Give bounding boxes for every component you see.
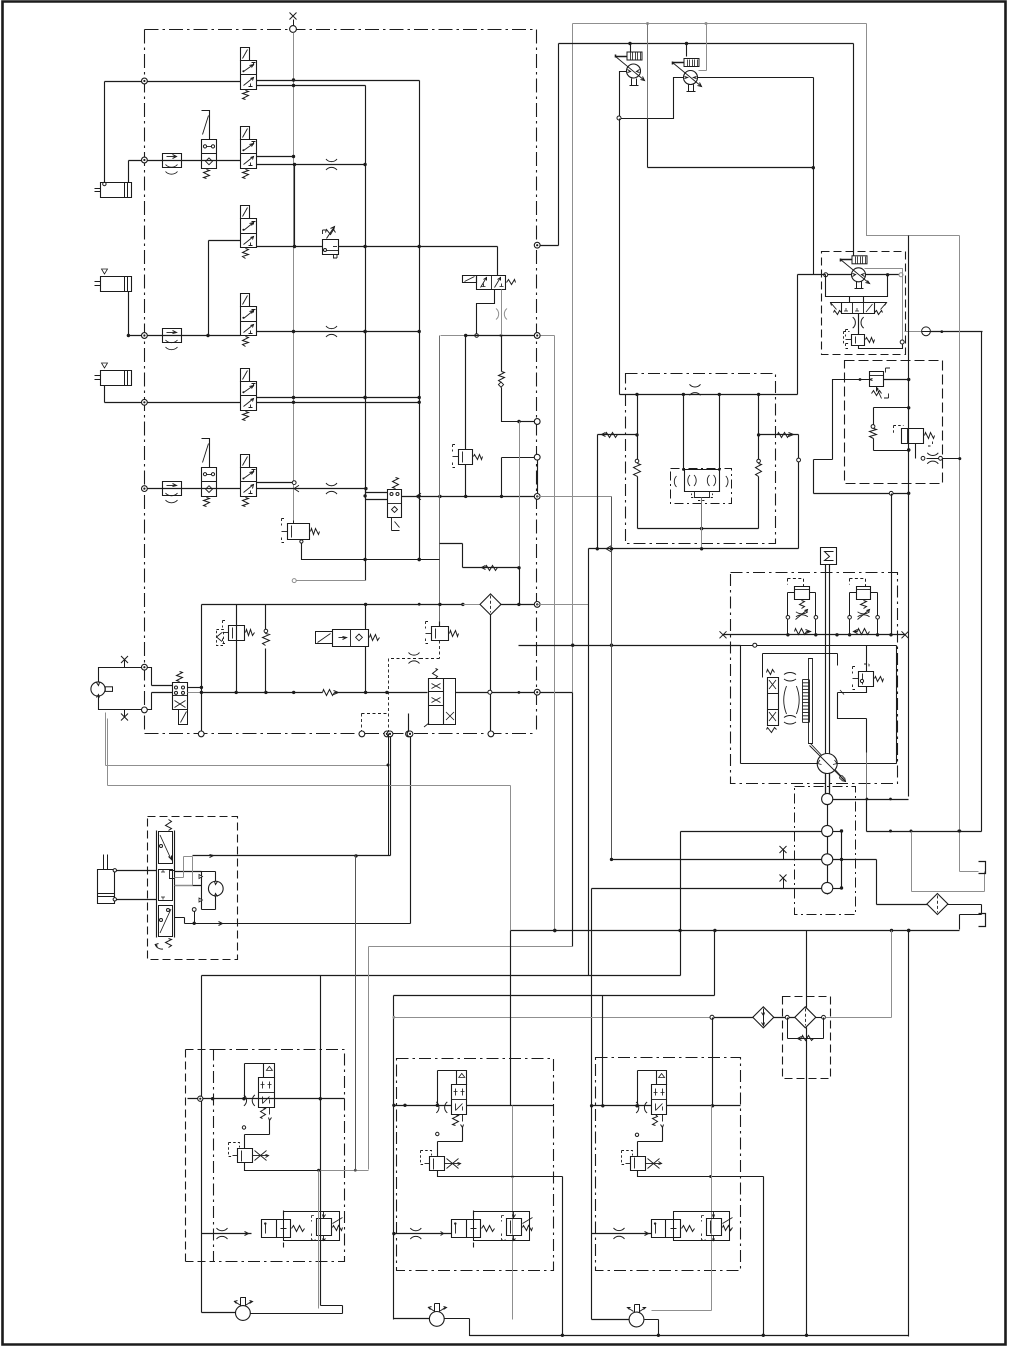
- gear pump dashdot box: [795, 787, 856, 915]
- module3 supply drop a: [601, 996, 604, 1108]
- filter F2: [795, 1007, 816, 1028]
- gray tank lines: [912, 832, 985, 892]
- module1 pump PM1: [234, 1298, 253, 1321]
- wire x719 into box: [718, 395, 721, 471]
- relief valve RV1b: [453, 445, 483, 468]
- sigma power box: [821, 548, 837, 565]
- module1 row wire: [188, 1096, 321, 1101]
- pilot gray supply line vertical: [293, 33, 295, 524]
- wire gauge to right: [931, 330, 983, 333]
- cylinder CYL2: [95, 269, 132, 292]
- relief valve RV0: [323, 227, 339, 259]
- wire x490 down: [490, 615, 492, 732]
- module3 below valve: [635, 1128, 662, 1157]
- pilot black vertical x294: [293, 165, 296, 249]
- wire F3 right: [948, 905, 982, 930]
- branch right arrow y434: [757, 433, 801, 549]
- junction circle y421 edge: [534, 419, 540, 425]
- reducing valve RVa: [870, 368, 891, 399]
- X mark bottom: [121, 710, 128, 721]
- wire x501 to y421: [502, 388, 535, 424]
- gray link to F1: [463, 604, 481, 606]
- wire inlet header: [620, 393, 798, 396]
- wire x680: [678, 832, 681, 976]
- vertical x806 riser: [806, 931, 808, 1336]
- dashed pilot RVd: [389, 641, 440, 734]
- dashed pilot y713: [362, 714, 389, 734]
- gray center drain: [701, 498, 703, 549]
- check throttle square CT3: [163, 482, 182, 503]
- junction circle y457 edge: [534, 454, 540, 493]
- gray row604 ext: [538, 604, 589, 606]
- relief valve RVc swing: [853, 646, 884, 690]
- wire cyl-valve top: [113, 869, 156, 872]
- wire x355: [355, 856, 357, 1170]
- wire pump-valve links: [152, 686, 173, 693]
- module2 pump PM2: [428, 1304, 447, 1327]
- gray module3 drop: [652, 1106, 712, 1311]
- wire row y692 left: [188, 605, 204, 734]
- junction circle row4: [142, 333, 148, 339]
- vertical x908 long: [907, 236, 910, 933]
- shaft to circles: [826, 774, 830, 895]
- restrictor row6: [326, 483, 337, 494]
- junction circle row1: [142, 78, 148, 84]
- valve V7 solenoid 2/2: [202, 439, 217, 507]
- wire RVb out: [916, 444, 960, 464]
- reducing valve RVc2 on x236: [217, 621, 255, 646]
- gray wire row6 ext: [538, 496, 612, 498]
- gray vertical x960: [958, 236, 961, 872]
- wire row6 jog: [366, 489, 388, 500]
- module3 reducing valve RVm3: [622, 1151, 662, 1171]
- junction circle edge245: [534, 242, 540, 248]
- wire vertical x365: [363, 86, 366, 581]
- wire branch right x758: [756, 395, 762, 529]
- module3 pair valve PV3: [652, 1212, 733, 1241]
- valve V9 solenoid 2/2 on row6: [388, 478, 402, 531]
- wire HP3 loop: [826, 275, 888, 303]
- gray vertical x554: [553, 336, 556, 933]
- check diamond CD1: [753, 1007, 774, 1028]
- wire manifold out right: [905, 331, 922, 333]
- swing pump circle: [810, 746, 846, 782]
- wire row1 left: [103, 82, 241, 186]
- wire row y692 cont: [339, 691, 428, 694]
- wire vertical x419: [418, 81, 421, 562]
- wire RVc drain: [838, 687, 867, 753]
- module3 pump wires: [592, 1320, 659, 1336]
- valve V1 pilot 3/2: [241, 48, 257, 100]
- vertical x841: [840, 829, 843, 889]
- travel motor M1: [208, 881, 223, 896]
- gray drop x647: [647, 24, 649, 119]
- junction circle x410: [407, 731, 413, 737]
- wire pump to right: [827, 763, 896, 765]
- module1 outer dashed box: [186, 1050, 214, 1262]
- wire x813 drop to y493: [814, 460, 911, 496]
- gray wire V10 right port: [499, 290, 502, 338]
- vertical x365 valve link: [365, 605, 367, 693]
- wire x408 stub: [408, 714, 410, 734]
- check spring loop: [870, 408, 911, 452]
- wire compensator bus: [720, 631, 909, 638]
- gray wire x440: [439, 336, 441, 497]
- wire travel out bottom: [175, 908, 411, 926]
- wire x712 to module3: [712, 1018, 714, 1106]
- wire row4: [127, 292, 241, 338]
- wire S1 right: [833, 798, 909, 801]
- main directional valve V13: [424, 669, 456, 728]
- travel valve rails: [157, 831, 175, 938]
- bus y995: [394, 931, 715, 996]
- wire row4 right: [257, 330, 421, 333]
- plug X S4: [780, 875, 787, 889]
- spring check x501: [501, 336, 503, 372]
- filter F3: [927, 894, 948, 915]
- wire row6 to edge: [420, 495, 538, 498]
- pump P0 circle: [91, 682, 113, 698]
- bus y930: [511, 929, 960, 932]
- junction circle row6: [142, 486, 148, 492]
- wire x876 drop: [876, 860, 878, 905]
- valve V3 pilot 3/2: [241, 127, 257, 179]
- wire row y692 right: [456, 690, 573, 694]
- gray vertical x573: [572, 24, 574, 693]
- bus y944 gray: [369, 946, 573, 948]
- wire row3 relief link: [257, 246, 323, 248]
- gray module1 ext: [321, 1169, 369, 1172]
- wire VB3 out + throttle: [853, 314, 864, 335]
- spring symbol on x501: [498, 372, 504, 388]
- junction circle x390: [387, 731, 393, 737]
- hand pump HP1: [616, 44, 645, 86]
- travel cylinder CYL4: [98, 855, 115, 904]
- wire S3 left: [612, 859, 822, 861]
- wire x558 to box edge: [541, 44, 559, 246]
- valve V11 pump unload: [173, 672, 188, 725]
- pilot circuit dashed enclosure box: [145, 30, 537, 734]
- wire F2 right: [816, 1015, 892, 1019]
- wire row y692 main: [202, 691, 323, 694]
- wire V8 upper port: [257, 481, 297, 485]
- travel block dashed box: [148, 817, 238, 960]
- wire travel out top: [193, 854, 391, 857]
- module1 pair links: [262, 1211, 284, 1248]
- wire S2 right: [833, 831, 842, 833]
- wire x588 pilot: [588, 549, 590, 976]
- pump P0 loop box: [99, 668, 152, 710]
- module2 below valve: [436, 1128, 463, 1157]
- module1 supply drop: [319, 976, 322, 1306]
- check module dashdot box: [671, 469, 732, 504]
- cylinder CYL1: [95, 183, 132, 198]
- check marks motor: [199, 875, 203, 903]
- junction circle node top: [290, 26, 297, 33]
- wire RV1 out: [300, 540, 440, 562]
- wire x908 lower: [908, 931, 910, 1337]
- gray bus y1017: [394, 1017, 711, 1019]
- wire x866 up: [866, 800, 868, 832]
- wire RV1b bottom: [465, 465, 467, 497]
- valve V5 pilot 3/2: [241, 294, 257, 347]
- hand pump HP2: [673, 44, 702, 92]
- junction circle row2: [142, 157, 148, 163]
- gray drop x368: [368, 947, 370, 1170]
- wire box top ext: [519, 605, 757, 648]
- compensator PC1: [786, 579, 818, 635]
- pump circle S3: [822, 854, 833, 865]
- wire row2 right lower: [257, 163, 366, 166]
- junction circle bus335 edge: [534, 333, 540, 339]
- gray pilot jog: [175, 857, 193, 886]
- wire x853 to manifold: [853, 44, 855, 256]
- wire x891 to swing bus: [891, 494, 893, 635]
- module2 pump wires: [394, 1319, 562, 1336]
- wire between filters: [774, 1015, 796, 1019]
- module1 below valve: [242, 1121, 269, 1149]
- swing inner box: [741, 646, 897, 764]
- check throttle square CT2: [163, 329, 182, 350]
- junction circle x490 bottom: [488, 731, 494, 737]
- wire row y604: [202, 603, 465, 606]
- restrictor below V10: [496, 309, 507, 320]
- reducing valve RVb: [894, 426, 935, 447]
- wire S2 left: [681, 830, 822, 833]
- hand pump HP3: [841, 256, 870, 289]
- valve block VB3: [831, 303, 887, 315]
- module3 row right: [667, 1104, 741, 1107]
- module2 row right: [467, 1105, 554, 1107]
- wire feed left L: [814, 378, 870, 459]
- gray drain x867: [866, 753, 868, 832]
- pump circle S1: [822, 793, 833, 804]
- wire x797 riser: [798, 275, 826, 395]
- gray module1 pair drop: [318, 1171, 320, 1309]
- swing control assembly: [763, 654, 844, 780]
- filter F1 diamond: [480, 594, 501, 615]
- valve V4 pilot 3/2: [241, 206, 257, 259]
- module1 dashdot box: [214, 1050, 345, 1262]
- module3 row2: [592, 1228, 652, 1239]
- module1 valve MV1: [244, 1064, 275, 1121]
- module1 pilot L: [245, 1064, 266, 1099]
- travel motor loop: [202, 872, 216, 910]
- filter F2 bypass: [788, 1018, 824, 1041]
- wire x410 up: [410, 736, 412, 924]
- vent node X above junction: [290, 13, 297, 26]
- relief valve RV1: [282, 519, 320, 543]
- bus bottom y1335: [470, 1334, 909, 1337]
- spring arrows on bus: [795, 629, 870, 635]
- wire RV3 out loop: [859, 340, 905, 349]
- wire row6 mid: [257, 485, 368, 492]
- X mark top: [121, 656, 128, 667]
- wire S3 right: [833, 858, 877, 861]
- branch left arrow y434: [598, 433, 639, 438]
- gray y785 pilot: [108, 719, 511, 786]
- check throttle square CT1: [163, 154, 182, 175]
- spring arrow y692: [323, 690, 339, 696]
- travel valve sections: [155, 820, 175, 950]
- swing pump dashdot box: [731, 573, 898, 784]
- tank T1: [979, 862, 986, 874]
- gray wire x519: [517, 422, 520, 605]
- gray y765 pilot: [106, 713, 389, 766]
- wire S4 left: [592, 888, 822, 890]
- wire branch left x637: [634, 395, 641, 529]
- module2 reducing valve RVm2: [421, 1151, 461, 1171]
- module3 row wire: [590, 1104, 652, 1107]
- module2 dashdot box: [397, 1059, 554, 1271]
- wire HP1 loop: [617, 72, 684, 121]
- vertical x236 y604-692: [236, 605, 238, 693]
- junction circle row6 edge: [534, 494, 540, 500]
- junction circle y692 edge: [534, 689, 540, 695]
- central block dashdot box: [626, 374, 776, 544]
- valve V10 horizontal 3/2: [463, 276, 516, 290]
- pump shaft double line: [826, 565, 830, 796]
- gray bus top: [573, 22, 867, 25]
- module1 pair valve PV1: [262, 1212, 343, 1241]
- reducing station dashed box: [845, 361, 943, 484]
- wire row6 left: [145, 488, 241, 490]
- module2 pilot L: [438, 1071, 458, 1106]
- pilot manifold dashed box: [822, 252, 906, 355]
- module3 valve MV3: [636, 1071, 666, 1128]
- module3 red out: [638, 1171, 764, 1336]
- wire x591 travel: [591, 889, 593, 1320]
- wire x573 lower: [572, 693, 574, 947]
- relief valve RV3: [844, 330, 875, 349]
- wire S4 right: [833, 888, 842, 890]
- gray drop x706: [699, 24, 707, 71]
- module3 pump PM3: [628, 1305, 646, 1327]
- compensator PC2: [848, 579, 880, 635]
- restrictor header: [690, 384, 701, 395]
- check module inner box: [674, 470, 728, 501]
- solenoid valve V12 horizontal: [316, 630, 380, 647]
- wire row2 left: [129, 161, 241, 183]
- restrictor row2: [326, 159, 337, 170]
- pilot line y567 w spring arrow: [440, 544, 520, 571]
- plug X S3: [780, 846, 787, 860]
- hatch spring columns: [803, 680, 810, 723]
- wire F1 right: [501, 603, 535, 606]
- wire HP3 port line: [824, 273, 903, 277]
- gray wire RV1 drain: [292, 579, 365, 583]
- junction circle pump top: [142, 664, 148, 670]
- gray right loop: [867, 24, 960, 236]
- wire cyl-valve bottom: [113, 898, 156, 901]
- vertical x266 y604-692: [265, 605, 267, 693]
- gray x891: [891, 931, 893, 1018]
- wire valve-motor top: [175, 872, 202, 886]
- tank T2: [979, 914, 986, 927]
- wire row5 right upper: [257, 396, 420, 399]
- restrictor row4: [326, 326, 337, 337]
- reducing valve RVd: [426, 622, 459, 644]
- LS line y548: [589, 545, 799, 552]
- wire V10 left port L: [475, 290, 495, 338]
- wire x683 into box: [682, 395, 685, 471]
- spring check on x266: [263, 629, 270, 645]
- black bus top2: [559, 42, 854, 45]
- module1 row right: [321, 1098, 345, 1100]
- wire x510 supply: [510, 786, 512, 1106]
- module1 reducing valve RVm1: [229, 1143, 269, 1163]
- junction circle pump bottom: [142, 707, 148, 713]
- module2 pair links: [473, 1211, 475, 1248]
- module2 row wire: [394, 1104, 452, 1107]
- module2 red out: [438, 1171, 565, 1338]
- module2 valve MV2: [436, 1071, 466, 1128]
- wire filter line: [710, 1015, 754, 1019]
- module2 pair valve PV2: [452, 1212, 533, 1241]
- gray wire x440 lower: [439, 497, 441, 622]
- wire y831 header: [867, 830, 982, 833]
- junction circles on bottom edge: [198, 731, 411, 737]
- valve V6 pilot 3/2: [241, 369, 257, 421]
- vertical x981: [981, 332, 983, 832]
- filter station dashed box: [783, 997, 831, 1079]
- bus y975: [202, 975, 681, 977]
- pilot bus y335: [441, 334, 555, 337]
- wire row6 right: [402, 493, 422, 500]
- module1 row2: [202, 1228, 252, 1239]
- module1 outer rect left: [201, 976, 203, 1313]
- wire row5 right lower: [257, 401, 420, 404]
- valve V8 pilot 3/2: [241, 455, 257, 507]
- wire row2 right upper: [257, 155, 296, 158]
- wire RVa right: [884, 378, 911, 381]
- junction circle y604 edge: [534, 602, 540, 608]
- wire RV0 to x497: [339, 245, 498, 276]
- wire x465 to RV1b: [465, 336, 467, 450]
- module3 pilot L: [638, 1071, 658, 1106]
- wire y457 link: [502, 458, 535, 497]
- wire bottom link: [638, 527, 759, 530]
- wire row5 left: [105, 386, 241, 403]
- wire row1 right lower: [257, 84, 366, 87]
- wire row1 right upper: [257, 78, 420, 81]
- wire x597 branch: [597, 435, 599, 549]
- wire big loop: [620, 78, 816, 395]
- gauge G1: [922, 327, 931, 336]
- module2 outer rect left: [392, 996, 395, 1320]
- wire x390 up: [390, 736, 392, 856]
- module2 supply drop: [511, 1104, 513, 1106]
- wire row3: [206, 241, 240, 338]
- pump circle S2: [822, 825, 833, 836]
- valve V2 solenoid 2/2: [202, 111, 217, 179]
- junction circle row5: [142, 399, 148, 405]
- wire x611 long: [610, 497, 613, 862]
- gray module2 drop: [511, 1106, 514, 1320]
- module1 red out: [245, 1163, 321, 1172]
- pump circle S4: [822, 882, 833, 893]
- wire x388 below: [387, 734, 390, 857]
- module3 dashdot box: [596, 1058, 741, 1271]
- gray HP3 bypass: [865, 269, 903, 343]
- wire S3 to filter: [877, 904, 928, 906]
- cylinder CYL3: [95, 363, 132, 386]
- module2 row2: [394, 1228, 452, 1239]
- module1 pump wires: [202, 1099, 343, 1314]
